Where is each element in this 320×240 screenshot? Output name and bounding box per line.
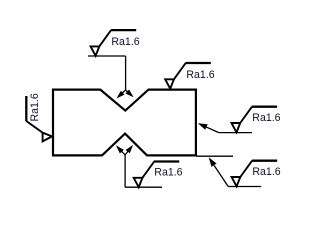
surface symbol S6 triangle [232,177,241,186]
surface symbol S2 bar [186,62,211,64]
svg-text:Ra1.6: Ra1.6 [252,166,280,178]
extension line at bottom-right edge [196,155,233,157]
surface symbol S4 arrow [198,123,208,130]
svg-text:Ra1.6: Ra1.6 [111,36,139,48]
surface symbol S1 leg [99,30,111,46]
surface symbol S5 leader branch right wire [125,148,131,155]
surface symbol S5 bar [154,160,179,162]
surface symbol S1 leader branch right wire [126,90,132,95]
surface symbol S3 triangle (rotated, on left edge) [43,133,52,142]
part outline [53,90,196,156]
surface symbol S6 leg [240,161,252,177]
surface symbol S5 arrow right [126,145,134,153]
surface symbol S4 leader wire [206,127,219,133]
svg-text:Ra1.6: Ra1.6 [154,167,182,179]
surface symbol S6 shoulder line [228,186,261,188]
surface symbol S4 bar [252,106,277,108]
surface symbol S2 leg [174,63,186,79]
surface symbol S1 shoulder line [88,55,126,57]
surface symbol S1 arrow right [125,90,133,98]
svg-text:Ra1.6: Ra1.6 [29,93,41,121]
surface symbol S1 arrow left [116,91,124,99]
surface symbol S6 arrow [209,157,217,167]
surface symbol S4 leg [240,107,252,123]
surface symbol S5 leader vertical [124,155,126,187]
surface symbol S5 arrow left [116,145,124,153]
surface symbol S5 leader branch left wire [118,148,125,155]
surface symbol S1 triangle [91,46,100,55]
surface symbol S6 bar [252,160,277,162]
surface symbol S3 leg [26,121,42,133]
surface symbol S1 leader vertical [125,56,127,90]
svg-text:Ra1.6: Ra1.6 [252,112,280,124]
surface symbol S1 leader branch left wire [119,90,126,96]
surface symbol S2 triangle (on top edge) [165,79,174,88]
surface symbol S3 bar [25,96,27,121]
surface symbol S5 triangle [134,178,143,187]
surface symbol S4 shoulder line [219,132,252,134]
surface symbol S6 leader wire [214,165,228,186]
surface symbol S1 bar [111,29,136,31]
surface symbol S5 shoulder line [125,186,162,188]
svg-text:Ra1.6: Ra1.6 [186,69,214,81]
surface symbol S4 triangle [232,123,241,132]
surface symbol S5 leg [142,162,154,178]
